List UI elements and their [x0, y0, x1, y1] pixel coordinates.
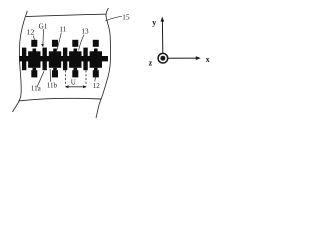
- band left break curve: [13, 11, 28, 112]
- leader 11: [57, 33, 61, 50]
- leader 13: [79, 35, 84, 51]
- svg-text:12: 12: [27, 27, 35, 36]
- square column 1 (center 34.3): [28, 51, 40, 68]
- square column 3 (center 75.3): [69, 51, 81, 68]
- leader 12 bottom: [95, 76, 96, 81]
- metallization group: [19, 40, 108, 78]
- band substrate 15 bottom edge: [19, 98, 102, 101]
- cross link 3: [83, 48, 87, 71]
- leader 12 top: [33, 36, 34, 40]
- leader 11a: [37, 71, 44, 87]
- dashed extension line left (cross link 2): [65, 70, 67, 86]
- svg-text:G1: G1: [39, 23, 48, 31]
- svg-text:12: 12: [93, 82, 101, 90]
- svg-text:13: 13: [81, 28, 89, 36]
- band right break curve: [96, 8, 110, 118]
- svg-text:11a: 11a: [31, 85, 42, 93]
- svg-text:x: x: [206, 55, 210, 64]
- leader 15: [105, 16, 122, 21]
- dashed extension line right (cross link 3): [85, 70, 87, 86]
- square column 2 (center 55.0): [49, 51, 61, 68]
- svg-text:15: 15: [122, 13, 130, 22]
- bus bar 13: [19, 56, 108, 61]
- cross link 1: [42, 48, 46, 71]
- square column 4 (center 95.8): [90, 51, 102, 68]
- x axis: [168, 57, 198, 59]
- U dimension line: [66, 86, 86, 88]
- z axis origin circle: [158, 53, 168, 63]
- arrow G1: [42, 29, 45, 44]
- leader 11b: [49, 69, 52, 82]
- svg-text:11: 11: [59, 26, 66, 34]
- svg-text:z: z: [149, 58, 153, 67]
- svg-text:U: U: [71, 78, 76, 86]
- svg-text:y: y: [152, 18, 156, 27]
- band substrate 15 top edge: [26, 14, 106, 16]
- cross link 2: [63, 48, 67, 71]
- cross link 0 (left, at band break): [22, 48, 26, 71]
- y axis: [161, 21, 163, 54]
- svg-text:11b: 11b: [47, 81, 58, 89]
